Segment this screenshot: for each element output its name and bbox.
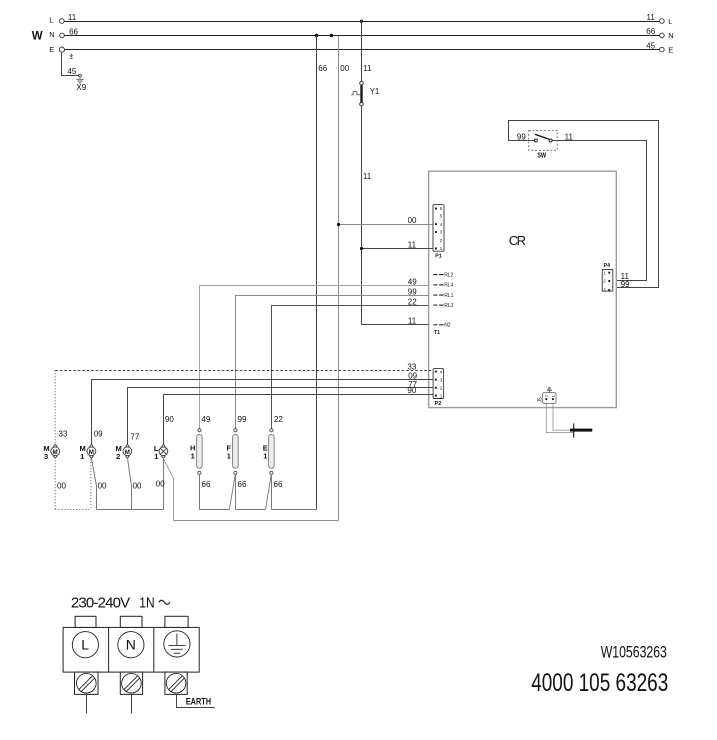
svg-text:09: 09 xyxy=(94,429,103,438)
screw E xyxy=(166,673,186,693)
svg-text:T1: T1 xyxy=(434,330,440,336)
svg-text:00: 00 xyxy=(156,480,165,489)
screw N xyxy=(122,673,142,693)
wire 11 vertical feeder upper xyxy=(361,21,363,82)
svg-text:33: 33 xyxy=(59,429,68,438)
optional enclosure dashed box around M3 xyxy=(55,370,91,509)
relay stub RL4 xyxy=(433,284,443,286)
svg-text:22: 22 xyxy=(274,415,283,424)
svg-text:66: 66 xyxy=(646,27,655,36)
svg-text:N: N xyxy=(668,31,673,40)
wire L rail xyxy=(64,21,659,23)
motor M1 xyxy=(87,444,96,458)
svg-text:SW: SW xyxy=(537,152,546,160)
heater F1 xyxy=(233,429,239,475)
svg-text:49: 49 xyxy=(408,277,417,286)
screw box N xyxy=(120,672,142,694)
terminal earth circle xyxy=(164,631,190,657)
wire F1 drop xyxy=(235,475,237,510)
svg-text:RL2: RL2 xyxy=(444,272,453,278)
svg-text:11: 11 xyxy=(408,240,417,249)
svg-text:RL4: RL4 xyxy=(444,283,453,289)
wire N rail xyxy=(64,35,659,37)
node junction on L rail xyxy=(360,20,363,23)
svg-text:00: 00 xyxy=(98,482,107,491)
wire 66 bus segment 1 xyxy=(199,509,229,511)
svg-text:2: 2 xyxy=(116,452,120,461)
connector P1 xyxy=(433,205,444,252)
switch SW xyxy=(529,130,557,159)
svg-text:90: 90 xyxy=(407,386,416,395)
terminal stub N2 xyxy=(433,324,443,326)
svg-text:1: 1 xyxy=(154,452,158,461)
node junction 66 on N rail xyxy=(315,34,318,37)
svg-text:33: 33 xyxy=(407,362,416,371)
terminal X9 xyxy=(79,74,82,77)
svg-text:99: 99 xyxy=(517,133,526,142)
node junction 00/P1 xyxy=(337,223,340,226)
solenoid Y1 xyxy=(351,81,380,106)
svg-text:00: 00 xyxy=(57,482,66,491)
svg-text:RL3: RL3 xyxy=(444,303,453,309)
svg-text:X9: X9 xyxy=(76,83,86,92)
wire M2 to 00 bus xyxy=(128,458,132,509)
motor M2 xyxy=(123,444,132,458)
wire mains earth xyxy=(177,694,215,707)
svg-text:2: 2 xyxy=(545,395,549,397)
svg-text:E: E xyxy=(49,45,54,54)
wire mains L xyxy=(86,694,88,713)
relay stub RL1 xyxy=(433,294,443,296)
svg-text:RL1: RL1 xyxy=(444,293,453,299)
svg-text:99: 99 xyxy=(408,287,417,296)
wire 00 vertical feeder xyxy=(338,36,340,521)
svg-text:45: 45 xyxy=(67,67,76,76)
wire J5 pin1 to chassis xyxy=(553,404,570,431)
svg-text:230-240V: 230-240V xyxy=(71,595,130,612)
svg-text:66: 66 xyxy=(69,27,78,36)
relay stub RL3 xyxy=(433,304,443,306)
svg-text:1: 1 xyxy=(80,452,84,461)
svg-text:49: 49 xyxy=(201,415,210,424)
node junction 00 on N rail xyxy=(330,34,333,37)
svg-text:N: N xyxy=(126,637,136,653)
wire E1 diagonal xyxy=(266,475,272,509)
wire 11 branch to P1 pin1 xyxy=(362,248,437,250)
svg-text:11: 11 xyxy=(68,13,77,22)
svg-text:L: L xyxy=(49,16,53,25)
svg-text:66: 66 xyxy=(202,480,211,489)
svg-text:11: 11 xyxy=(363,172,372,181)
wire 11 to T1/N2 xyxy=(362,324,429,326)
svg-text:22: 22 xyxy=(408,297,417,306)
terminal E right xyxy=(660,47,665,52)
svg-text:W10563263: W10563263 xyxy=(601,644,667,662)
ground symbol inside earth terminal xyxy=(169,634,186,654)
wire 77 to P2 pin2 xyxy=(128,388,437,445)
svg-text:3: 3 xyxy=(44,452,48,461)
terminal N circle xyxy=(118,632,144,658)
svg-text:J5: J5 xyxy=(537,397,543,403)
svg-text:99: 99 xyxy=(621,280,630,289)
screw box L xyxy=(75,672,99,694)
svg-text:1: 1 xyxy=(227,452,231,461)
svg-text:00: 00 xyxy=(408,216,417,225)
svg-text:EARTH: EARTH xyxy=(186,697,211,707)
wire 66 bus segment 2 xyxy=(235,509,265,511)
screw L xyxy=(77,673,97,693)
svg-text:P4: P4 xyxy=(604,263,611,269)
svg-text:1N: 1N xyxy=(139,594,154,611)
terminal L right xyxy=(660,19,665,24)
control board CR xyxy=(429,171,617,407)
terminal L left xyxy=(60,19,65,24)
tab E xyxy=(165,616,188,627)
svg-text:99: 99 xyxy=(238,415,247,424)
motor M3 xyxy=(51,444,60,458)
wire 00 bus motors xyxy=(97,509,164,511)
wire mains N xyxy=(131,694,133,713)
relay stub RL2 xyxy=(433,274,443,276)
svg-text:E: E xyxy=(668,45,673,54)
wire J5 pin2 to chassis xyxy=(546,404,573,433)
svg-text:11: 11 xyxy=(647,13,656,22)
wire E to X9 xyxy=(62,52,79,75)
svg-text:M: M xyxy=(53,449,58,456)
wire 66 bus segment 3 xyxy=(271,509,316,511)
svg-text:66: 66 xyxy=(238,480,247,489)
svg-text:90: 90 xyxy=(165,415,174,424)
svg-text:11: 11 xyxy=(408,316,417,325)
svg-text:1: 1 xyxy=(191,452,195,461)
svg-text:CR: CR xyxy=(509,233,526,248)
wire SW right leg 11 xyxy=(552,141,646,281)
svg-text:4000 105 63263: 4000 105 63263 xyxy=(531,668,668,696)
ground mark above J5 xyxy=(547,388,552,393)
svg-text:P1: P1 xyxy=(435,253,442,259)
wire L1 drop to 00 bus xyxy=(163,458,165,509)
svg-text:N: N xyxy=(49,30,54,39)
svg-text:66: 66 xyxy=(318,64,327,73)
wire 66 vertical feeder xyxy=(316,36,318,510)
svg-text:00: 00 xyxy=(133,482,142,491)
tilde mark xyxy=(159,600,170,604)
svg-text:1: 1 xyxy=(263,452,267,461)
wire 22 to RL3 xyxy=(272,306,429,430)
wire 00 branch to P1 pin4 xyxy=(339,224,437,226)
node junction 11/P1 xyxy=(360,247,363,250)
connector P2 xyxy=(433,369,444,399)
terminal block body xyxy=(63,616,199,672)
svg-text:45: 45 xyxy=(646,41,655,50)
svg-text:Y1: Y1 xyxy=(370,87,380,96)
svg-text:N2: N2 xyxy=(444,323,451,329)
svg-text:11: 11 xyxy=(363,64,372,73)
chassis ground tick xyxy=(573,423,575,437)
terminal N right xyxy=(660,33,665,38)
wire E1 drop xyxy=(271,475,273,510)
wire 99 to RL1 xyxy=(236,296,429,430)
svg-text:M: M xyxy=(89,449,94,456)
wire 33 dashed to P2 pin4 xyxy=(55,370,436,372)
connector J5 earth xyxy=(537,388,556,404)
lamp L1 xyxy=(159,444,168,458)
svg-text:00: 00 xyxy=(340,64,349,73)
svg-text:L: L xyxy=(81,637,89,653)
svg-text:W: W xyxy=(32,31,43,43)
wire 49 to RL4 xyxy=(200,286,429,430)
wire L1 to 00 return xyxy=(163,458,338,520)
svg-text:M: M xyxy=(125,449,130,456)
wire 90 to P2 pin1 xyxy=(164,395,437,445)
wire SW left leg 99 xyxy=(509,121,659,288)
svg-text:L: L xyxy=(668,17,672,26)
tab L xyxy=(75,616,96,627)
ground symbol small (functional earth near E) xyxy=(70,53,74,58)
svg-text:77: 77 xyxy=(130,432,139,441)
svg-text:1: 1 xyxy=(552,395,556,397)
wire H1 to 66 bus xyxy=(199,475,201,510)
chassis ground bar xyxy=(570,429,592,432)
svg-text:P2: P2 xyxy=(435,401,442,407)
wire E rail xyxy=(64,49,659,51)
svg-text:11: 11 xyxy=(565,133,574,142)
heater H1 xyxy=(197,429,203,475)
wire F1 diagonal xyxy=(229,475,235,509)
wire 11 vertical feeder lower xyxy=(361,106,363,324)
ground X9 earth symbol xyxy=(76,77,83,83)
screw box E xyxy=(165,672,187,694)
connector P4 xyxy=(602,270,613,293)
wire M1 to 00 bus xyxy=(92,458,97,509)
wire 09 to P2 pin3 xyxy=(92,380,437,445)
svg-text:66: 66 xyxy=(274,480,283,489)
tab N xyxy=(120,616,142,627)
heater E1 xyxy=(269,429,275,475)
terminal N left xyxy=(60,33,65,38)
terminal E left xyxy=(59,47,64,52)
terminal L circle xyxy=(72,632,98,658)
